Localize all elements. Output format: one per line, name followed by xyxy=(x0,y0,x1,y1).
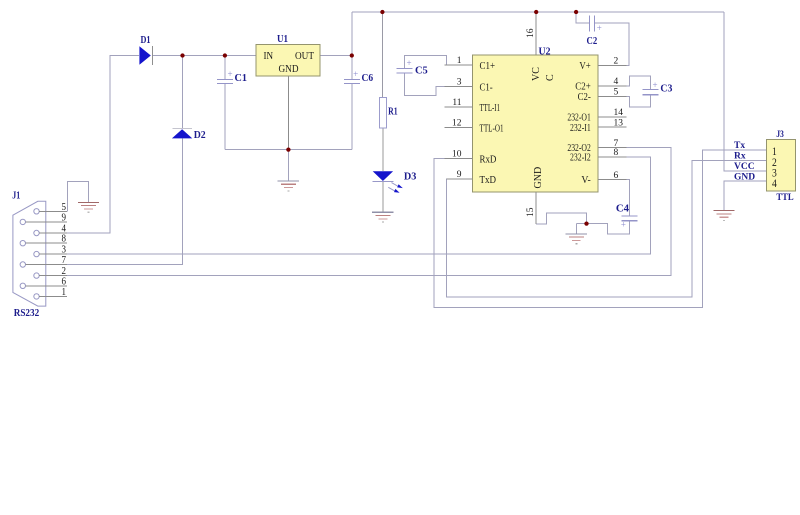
svg-text:GND: GND xyxy=(734,173,755,183)
svg-text:C2-: C2- xyxy=(578,92,591,103)
J1 pin line 2 xyxy=(39,275,67,277)
junction node pin15/C4/ground xyxy=(584,221,588,225)
junction node D2/top wire xyxy=(180,53,184,57)
svg-text:C5: C5 xyxy=(415,64,428,76)
wire J1 pin4 up-left to D1 xyxy=(67,56,139,234)
ground near C4 / U2 pin15 xyxy=(566,234,587,244)
J1 pin hole 2 xyxy=(34,273,39,278)
U2 pin 7 stub xyxy=(598,147,626,149)
U2 pin 3 stub xyxy=(444,86,472,88)
svg-text:TxD: TxD xyxy=(480,175,497,186)
J1 pin line 9 xyxy=(26,221,68,223)
J1 pin line 8 xyxy=(26,242,68,244)
svg-text:C6: C6 xyxy=(362,72,374,84)
U1 pin GND stub xyxy=(287,76,289,150)
wire U2 pin6 to C4 top xyxy=(598,180,630,216)
wire U2 pin5 to C3 bottom xyxy=(598,95,651,107)
J1 pin hole 7 xyxy=(20,262,25,267)
svg-text:+: + xyxy=(353,69,358,79)
wire U2 pin15 to ground junction xyxy=(536,213,586,224)
J1 pin hole 5 xyxy=(34,209,39,214)
J1 pin hole 4 xyxy=(34,230,39,235)
svg-text:+: + xyxy=(597,23,602,33)
capacitor C3 xyxy=(643,89,659,94)
U2 pin 13 stub xyxy=(598,126,626,128)
wire C1 bottom to ground bus xyxy=(224,84,226,150)
svg-text:4: 4 xyxy=(614,77,619,87)
J1 pin line 3 xyxy=(39,253,67,255)
svg-text:TTL: TTL xyxy=(776,193,793,203)
svg-text:TTL-I1: TTL-I1 xyxy=(480,103,501,114)
U2 pin 2 stub xyxy=(598,64,626,66)
svg-text:15: 15 xyxy=(526,207,536,217)
U2 pin 8 stub xyxy=(598,156,626,158)
svg-text:D2: D2 xyxy=(194,129,206,141)
J1 pin line 4 xyxy=(39,232,67,234)
svg-text:J3: J3 xyxy=(776,130,784,140)
svg-text:1: 1 xyxy=(62,286,67,298)
J1 pin hole 1 xyxy=(34,294,39,299)
svg-text:Tx: Tx xyxy=(734,141,745,151)
svg-text:VCC: VCC xyxy=(734,162,755,172)
svg-text:Rx: Rx xyxy=(734,151,746,161)
svg-text:11: 11 xyxy=(452,98,461,108)
svg-text:4: 4 xyxy=(772,178,777,190)
diode D2 xyxy=(172,129,192,138)
svg-text:232-O1: 232-O1 xyxy=(567,112,590,123)
svg-text:D3: D3 xyxy=(404,171,417,183)
svg-text:232-I1: 232-I1 xyxy=(570,123,591,134)
svg-text:R1: R1 xyxy=(388,106,398,118)
wire ground stem at C4 junction xyxy=(575,224,577,234)
J1 pin hole 3 xyxy=(34,251,39,256)
wire J3 GND to ground xyxy=(724,181,767,210)
wire D1 cathode to U1 IN xyxy=(153,55,256,57)
svg-text:GND: GND xyxy=(533,167,544,189)
U2 pin 11 stub xyxy=(444,106,472,108)
wire C5 bottom to U2 pin3 xyxy=(405,73,473,95)
wire C2 right to U2 pin2 xyxy=(595,23,630,65)
regulator U1 body xyxy=(256,44,320,76)
ground under D3 xyxy=(372,212,393,222)
junction node C1/top wire xyxy=(223,53,227,57)
wire U1 OUT to C6 node xyxy=(320,55,352,57)
svg-text:U2: U2 xyxy=(539,45,551,57)
connector J1 outline xyxy=(13,201,46,306)
wire C2 left to rail junction xyxy=(576,12,589,23)
wire rail to R1 xyxy=(381,12,383,98)
svg-text:1: 1 xyxy=(457,56,462,66)
wire net TxD U2 pin9 to J3 Rx xyxy=(446,160,767,297)
wire net U2 pin7 to J1 pin2 xyxy=(67,148,671,276)
ground under U1 xyxy=(278,150,299,191)
svg-text:GND: GND xyxy=(279,64,299,75)
resistor R1 xyxy=(379,98,386,129)
svg-text:C3: C3 xyxy=(660,82,672,94)
capacitor C6 xyxy=(344,79,360,83)
junction node rail/pin16 xyxy=(534,10,538,14)
svg-text:+: + xyxy=(621,219,626,229)
svg-text:6: 6 xyxy=(614,171,619,181)
svg-text:VC: VC xyxy=(531,67,542,81)
capacitor C5 xyxy=(397,69,413,74)
svg-text:RS232: RS232 xyxy=(14,307,40,319)
junction node U1 GND / ground bus xyxy=(286,147,290,151)
svg-text:C: C xyxy=(545,74,556,81)
U2 pin 10 stub xyxy=(444,158,472,160)
svg-text:+: + xyxy=(652,80,657,90)
wire D3 to ground xyxy=(382,181,384,212)
svg-text:C2: C2 xyxy=(587,35,598,47)
J1 pin line 5 xyxy=(39,210,67,212)
svg-text:C1: C1 xyxy=(235,72,248,84)
junction node rail/C2 xyxy=(574,10,578,14)
U2 pin 12 stub xyxy=(444,127,472,129)
junction node C6/U1 OUT xyxy=(350,53,354,57)
J1 pin line 7 xyxy=(26,264,68,266)
wire net RxD U2 pin10 to J3 Tx xyxy=(434,150,767,308)
J1 pin hole 9 xyxy=(20,219,25,224)
U2 pin 9 stub xyxy=(446,178,472,180)
junction node rail/R1 xyxy=(380,10,384,14)
svg-text:13: 13 xyxy=(614,118,624,128)
wire C4 bottom to ground junction xyxy=(576,221,629,234)
svg-text:+: + xyxy=(227,69,232,79)
capacitor C1 xyxy=(217,79,233,83)
J1 pin hole 8 xyxy=(20,241,25,246)
U2 pin 1 stub xyxy=(444,64,472,66)
connector J3 body xyxy=(766,140,795,192)
svg-text:C4: C4 xyxy=(616,203,630,215)
wire C1 top branch xyxy=(224,56,226,80)
wire R1 to D3 xyxy=(382,128,384,171)
wire J1 pin5 to ground xyxy=(67,182,88,212)
wire D2 bottom to J1 pin7 xyxy=(67,138,183,264)
U2 pin 14 stub xyxy=(598,116,626,118)
svg-text:12: 12 xyxy=(452,119,462,129)
J1 pin hole 6 xyxy=(20,283,25,288)
wire rail drop to C6 node xyxy=(351,12,353,56)
svg-text:V+: V+ xyxy=(579,61,591,72)
IC U2 body xyxy=(472,55,598,192)
wire rail to J3 VCC xyxy=(724,12,767,171)
wire VCC rail top xyxy=(352,11,724,13)
J1 pin line 6 xyxy=(26,285,68,287)
wire net U2 pin8 to J1 pin3 xyxy=(67,157,650,254)
svg-text:J1: J1 xyxy=(12,191,20,202)
svg-text:+: + xyxy=(406,58,411,68)
svg-text:C1+: C1+ xyxy=(480,61,496,72)
svg-text:14: 14 xyxy=(614,108,624,118)
svg-text:3: 3 xyxy=(457,78,462,88)
svg-text:U1: U1 xyxy=(277,33,288,45)
svg-text:TTL-O1: TTL-O1 xyxy=(480,123,504,134)
svg-text:5: 5 xyxy=(614,88,619,98)
svg-text:2: 2 xyxy=(614,57,619,67)
wire U2 pin16 to rail xyxy=(535,12,537,55)
capacitor C2 xyxy=(590,16,595,32)
wire C6 bottom branch xyxy=(351,84,353,150)
svg-text:9: 9 xyxy=(457,170,462,180)
svg-text:RxD: RxD xyxy=(480,155,497,166)
wire D2 top branch xyxy=(182,56,184,129)
ground under J3 xyxy=(713,211,734,221)
svg-text:8: 8 xyxy=(614,148,619,158)
U2 pin 4 stub xyxy=(598,85,626,87)
svg-text:C1-: C1- xyxy=(480,83,493,94)
diode D1 xyxy=(139,46,150,65)
capacitor C4 xyxy=(622,216,638,221)
svg-text:IN: IN xyxy=(264,51,274,62)
wire C5 top to U2 pin1 xyxy=(405,55,473,68)
ground at J1 pin5 xyxy=(78,202,99,212)
wire ground bus C1 to C6 xyxy=(225,149,352,151)
LED D3 xyxy=(373,171,393,181)
svg-text:V-: V- xyxy=(581,175,590,186)
U2 pin 15 stub xyxy=(535,192,537,224)
wire U2 pin4 to C3 top xyxy=(598,76,651,89)
svg-text:10: 10 xyxy=(452,150,462,160)
J1 pin line 1 xyxy=(39,295,67,297)
wire C6 top branch xyxy=(351,56,353,80)
svg-text:16: 16 xyxy=(526,28,536,38)
svg-text:232-I2: 232-I2 xyxy=(570,152,591,163)
U2 pin 5 stub xyxy=(598,95,626,97)
U2 pin 6 stub xyxy=(598,179,626,181)
svg-text:OUT: OUT xyxy=(295,51,315,62)
svg-text:D1: D1 xyxy=(141,34,151,46)
